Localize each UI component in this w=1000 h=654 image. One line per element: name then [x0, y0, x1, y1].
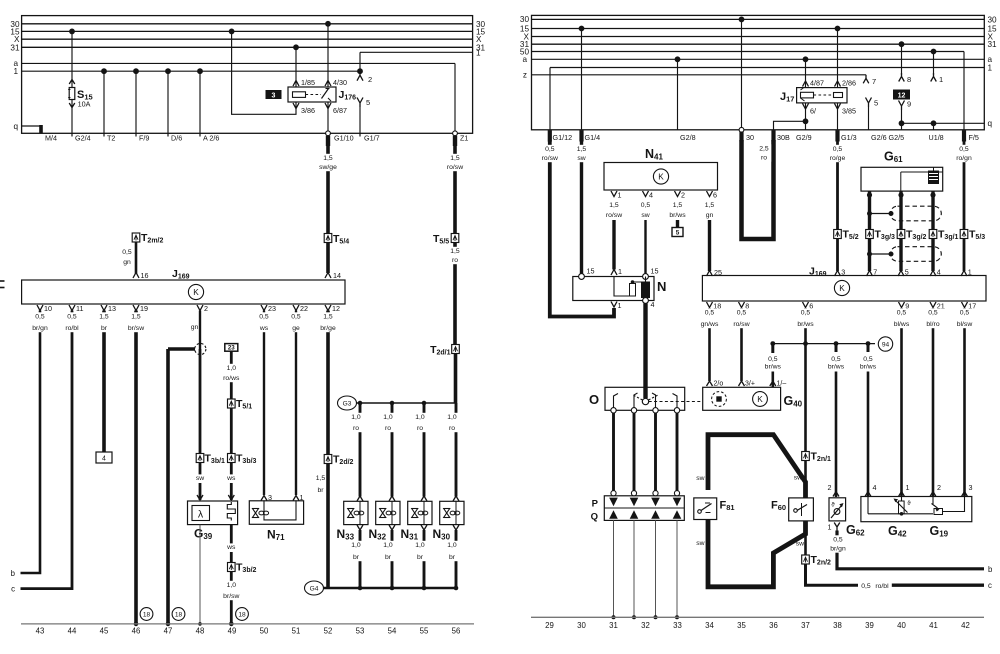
svg-text:1: 1 [968, 268, 972, 277]
svg-text:ro/bl: ro/bl [875, 583, 889, 590]
svg-text:2,5: 2,5 [759, 146, 769, 153]
svg-text:bl/sw: bl/sw [957, 321, 973, 328]
svg-text:gn/ws: gn/ws [701, 321, 719, 328]
svg-text:1: 1 [828, 523, 832, 532]
svg-text:3: 3 [272, 92, 276, 99]
svg-text:G2/5: G2/5 [889, 133, 905, 142]
svg-text:36: 36 [769, 621, 778, 630]
svg-text:0,5: 0,5 [861, 583, 871, 590]
svg-text:5: 5 [905, 268, 909, 277]
svg-text:ro/ge: ro/ge [830, 155, 846, 162]
svg-text:br/ws: br/ws [828, 364, 845, 371]
svg-text:1,0: 1,0 [351, 542, 361, 549]
svg-text:2/o: 2/o [714, 381, 724, 388]
svg-text:3: 3 [268, 493, 272, 502]
svg-text:1: 1 [300, 493, 304, 502]
svg-text:37: 37 [801, 621, 810, 630]
svg-text:2: 2 [681, 191, 685, 200]
svg-text:23: 23 [268, 304, 276, 313]
svg-text:47: 47 [164, 627, 173, 636]
svg-text:0,5: 0,5 [960, 310, 970, 317]
svg-text:0,5: 0,5 [35, 314, 45, 321]
svg-text:4: 4 [102, 456, 106, 463]
svg-text:1/–: 1/– [777, 381, 787, 388]
svg-text:7: 7 [873, 268, 877, 277]
svg-text:0,5: 0,5 [897, 310, 907, 317]
svg-text:34: 34 [705, 621, 714, 630]
svg-text:q: q [988, 119, 993, 128]
svg-text:1: 1 [988, 63, 993, 72]
svg-text:Q: Q [591, 512, 598, 523]
svg-text:K: K [658, 173, 664, 182]
svg-text:14: 14 [333, 271, 341, 280]
svg-text:sw: sw [696, 540, 704, 547]
svg-text:br/ge: br/ge [320, 325, 336, 332]
svg-text:F/5: F/5 [969, 133, 979, 142]
svg-text:49: 49 [228, 627, 237, 636]
svg-text:1,5: 1,5 [316, 475, 326, 482]
svg-text:18: 18 [143, 611, 151, 618]
svg-text:sw: sw [696, 475, 704, 482]
svg-text:1,5: 1,5 [131, 314, 141, 321]
svg-text:1,5: 1,5 [99, 314, 109, 321]
svg-text:3/86: 3/86 [301, 106, 315, 115]
svg-text:T2: T2 [107, 134, 115, 143]
svg-text:c: c [988, 581, 992, 590]
svg-text:A 2/6: A 2/6 [203, 134, 219, 143]
svg-text:94: 94 [882, 342, 890, 349]
svg-text:b: b [11, 569, 16, 578]
svg-text:gn: gn [706, 212, 714, 219]
svg-text:ro/bl: ro/bl [65, 325, 79, 332]
svg-text:1,5: 1,5 [609, 202, 619, 209]
svg-text:39: 39 [865, 621, 874, 630]
svg-text:1,5: 1,5 [450, 155, 460, 162]
svg-text:G3: G3 [343, 401, 352, 408]
svg-text:G2/8: G2/8 [680, 133, 696, 142]
svg-text:0,5: 0,5 [768, 356, 778, 363]
svg-text:46: 46 [132, 627, 141, 636]
svg-text:ws: ws [226, 475, 236, 482]
svg-text:gn: gn [191, 324, 199, 331]
svg-text:0,5: 0,5 [833, 146, 843, 153]
svg-text:15: 15 [587, 267, 595, 276]
svg-text:23: 23 [228, 345, 235, 352]
svg-text:0,5: 0,5 [959, 146, 969, 153]
svg-text:ws: ws [226, 544, 236, 551]
svg-text:0,5: 0,5 [801, 310, 811, 317]
svg-text:N: N [657, 279, 666, 294]
svg-text:1,0: 1,0 [351, 414, 361, 421]
svg-text:2: 2 [937, 483, 941, 492]
svg-text:ro: ro [417, 425, 423, 432]
svg-text:32: 32 [641, 621, 650, 630]
svg-text:35: 35 [737, 621, 746, 630]
svg-text:b: b [988, 565, 993, 574]
svg-text:sw: sw [577, 155, 585, 162]
svg-text:31: 31 [988, 40, 998, 49]
svg-text:sw: sw [796, 541, 804, 548]
svg-text:sw: sw [794, 475, 802, 482]
svg-text:ro: ro [761, 155, 767, 162]
svg-text:4: 4 [937, 268, 941, 277]
svg-text:6/87: 6/87 [333, 106, 347, 115]
svg-text:15: 15 [651, 267, 659, 276]
svg-text:1,0: 1,0 [227, 365, 237, 372]
svg-text:M/4: M/4 [45, 134, 57, 143]
svg-text:br: br [385, 554, 392, 561]
svg-text:6/: 6/ [810, 107, 816, 116]
svg-text:ro: ro [353, 425, 359, 432]
svg-text:br: br [449, 554, 456, 561]
svg-text:4: 4 [651, 300, 655, 309]
svg-text:52: 52 [324, 627, 333, 636]
svg-text:40: 40 [897, 621, 906, 630]
svg-text:4: 4 [649, 191, 653, 200]
svg-text:ro/sw: ro/sw [733, 321, 749, 328]
svg-text:3/85: 3/85 [842, 107, 856, 116]
svg-text:1: 1 [939, 75, 943, 84]
svg-text:5: 5 [676, 230, 680, 237]
svg-text:sw/ge: sw/ge [319, 164, 337, 171]
svg-text:0,5: 0,5 [259, 314, 269, 321]
svg-text:1,0: 1,0 [415, 542, 425, 549]
svg-text:F/9: F/9 [139, 134, 149, 143]
svg-text:2: 2 [204, 304, 208, 313]
svg-text:br/sw: br/sw [223, 593, 239, 600]
svg-text:48: 48 [196, 627, 205, 636]
svg-text:19: 19 [140, 304, 148, 313]
svg-text:D/6: D/6 [171, 134, 182, 143]
svg-text:30: 30 [577, 621, 586, 630]
svg-text:ro: ro [452, 257, 458, 264]
svg-text:33: 33 [673, 621, 682, 630]
svg-text:18: 18 [175, 611, 183, 618]
svg-text:1: 1 [618, 191, 622, 200]
svg-text:ro/sw: ro/sw [542, 155, 558, 162]
svg-text:sw: sw [641, 212, 649, 219]
svg-text:1: 1 [618, 301, 622, 310]
svg-text:G2/9: G2/9 [796, 133, 812, 142]
svg-text:10: 10 [44, 304, 52, 313]
svg-text:G1/4: G1/4 [585, 133, 601, 142]
svg-text:3: 3 [841, 268, 845, 277]
svg-text:3: 3 [969, 483, 973, 492]
svg-text:br: br [101, 325, 108, 332]
svg-text:2: 2 [828, 483, 832, 492]
svg-text:q: q [13, 122, 18, 131]
svg-text:53: 53 [356, 627, 365, 636]
svg-text:1,5: 1,5 [323, 155, 333, 162]
svg-text:0,5: 0,5 [545, 146, 555, 153]
svg-text:1,0: 1,0 [383, 542, 393, 549]
svg-text:4/30: 4/30 [333, 78, 347, 87]
svg-text:38: 38 [833, 621, 842, 630]
svg-text:ro/sw: ro/sw [606, 212, 622, 219]
svg-text:7: 7 [872, 77, 876, 86]
svg-text:43: 43 [36, 627, 45, 636]
svg-text:51: 51 [292, 627, 301, 636]
svg-text:45: 45 [100, 627, 109, 636]
svg-text:25: 25 [714, 268, 722, 277]
svg-text:c: c [11, 585, 15, 594]
svg-text:1,5: 1,5 [577, 146, 587, 153]
svg-text:12: 12 [332, 304, 340, 313]
svg-text:br: br [353, 554, 360, 561]
svg-text:br: br [317, 487, 324, 494]
svg-text:G1/12: G1/12 [553, 133, 573, 142]
svg-text:31: 31 [609, 621, 618, 630]
svg-text:K: K [193, 288, 199, 297]
svg-text:3/+: 3/+ [745, 381, 755, 388]
svg-text:1: 1 [618, 267, 622, 276]
svg-text:0,5: 0,5 [641, 202, 651, 209]
svg-text:1: 1 [13, 67, 18, 76]
svg-text:P: P [592, 499, 599, 510]
svg-text:13: 13 [108, 304, 116, 313]
svg-text:1,5: 1,5 [673, 202, 683, 209]
svg-text:5: 5 [874, 99, 878, 108]
svg-text:z: z [523, 70, 527, 79]
svg-text:4: 4 [873, 483, 877, 492]
svg-text:G2/4: G2/4 [75, 134, 91, 143]
svg-text:30: 30 [746, 133, 754, 142]
svg-text:bl/ro: bl/ro [926, 321, 939, 328]
svg-text:30: 30 [520, 15, 530, 24]
svg-text:1: 1 [906, 483, 910, 492]
svg-text:br: br [417, 554, 424, 561]
svg-text:12: 12 [898, 93, 906, 100]
svg-text:16: 16 [141, 271, 149, 280]
svg-text:0,5: 0,5 [705, 310, 715, 317]
svg-text:0,5: 0,5 [863, 356, 873, 363]
svg-text:br/gn: br/gn [830, 546, 846, 553]
svg-text:0,5: 0,5 [833, 537, 843, 544]
svg-text:55: 55 [420, 627, 429, 636]
svg-text:0,5: 0,5 [928, 310, 938, 317]
svg-text:K: K [839, 284, 845, 293]
svg-text:G1/3: G1/3 [841, 133, 857, 142]
svg-text:6: 6 [713, 191, 717, 200]
svg-text:G1/10: G1/10 [334, 134, 354, 143]
svg-text:30: 30 [988, 15, 998, 24]
svg-text:42: 42 [961, 621, 970, 630]
svg-text:K: K [757, 395, 763, 404]
svg-text:G1/7: G1/7 [364, 134, 380, 143]
svg-text:gn: gn [123, 259, 131, 266]
svg-text:30B: 30B [777, 133, 790, 142]
svg-text:50: 50 [260, 627, 269, 636]
svg-text:5: 5 [366, 98, 370, 107]
svg-text:ro: ro [385, 425, 391, 432]
svg-text:1,0: 1,0 [415, 414, 425, 421]
svg-text:1,0: 1,0 [227, 582, 237, 589]
svg-text:1,0: 1,0 [383, 414, 393, 421]
svg-text:br/gn: br/gn [32, 325, 48, 332]
svg-text:Z1: Z1 [460, 134, 468, 143]
svg-text:ro/ws: ro/ws [223, 375, 240, 382]
svg-text:8: 8 [907, 75, 911, 84]
svg-text:G4: G4 [310, 586, 319, 593]
svg-text:1/85: 1/85 [301, 78, 315, 87]
svg-text:2: 2 [368, 75, 372, 84]
svg-text:br/ws: br/ws [669, 212, 686, 219]
svg-text:56: 56 [452, 627, 461, 636]
svg-text:ge: ge [292, 325, 300, 332]
svg-text:31: 31 [10, 43, 20, 52]
svg-text:br/ws: br/ws [765, 364, 782, 371]
svg-text:9: 9 [907, 100, 911, 109]
svg-text:ro/gn: ro/gn [956, 155, 972, 162]
svg-text:0,5: 0,5 [122, 249, 132, 256]
svg-text:O: O [589, 392, 599, 407]
svg-text:41: 41 [929, 621, 938, 630]
svg-text:br/ws: br/ws [860, 364, 877, 371]
svg-text:ro/sw: ro/sw [447, 164, 463, 171]
svg-text:0,5: 0,5 [737, 310, 747, 317]
svg-text:bl/ws: bl/ws [894, 321, 910, 328]
svg-text:29: 29 [545, 621, 554, 630]
svg-text:br/ws: br/ws [797, 321, 814, 328]
svg-text:sw: sw [196, 475, 204, 482]
svg-text:ws: ws [259, 325, 269, 332]
svg-text:1,5: 1,5 [450, 248, 460, 255]
svg-text:2/86: 2/86 [842, 79, 856, 88]
svg-text:22: 22 [300, 304, 308, 313]
svg-text:54: 54 [388, 627, 397, 636]
svg-text:1,5: 1,5 [323, 314, 333, 321]
svg-text:1,0: 1,0 [447, 542, 457, 549]
svg-text:18: 18 [238, 611, 246, 618]
svg-text:1,5: 1,5 [705, 202, 715, 209]
svg-text:1: 1 [476, 48, 481, 57]
svg-text:10A: 10A [78, 100, 91, 109]
svg-text:a: a [522, 55, 527, 64]
svg-text:0,5: 0,5 [831, 356, 841, 363]
svg-text:0,5: 0,5 [291, 314, 301, 321]
svg-text:ro: ro [449, 425, 455, 432]
svg-text:1,0: 1,0 [447, 414, 457, 421]
svg-text:G2/6: G2/6 [871, 133, 887, 142]
svg-text:0,5: 0,5 [67, 314, 77, 321]
svg-text:br/sw: br/sw [128, 325, 144, 332]
svg-text:λ: λ [198, 509, 204, 521]
svg-text:U1/8: U1/8 [929, 133, 944, 142]
svg-text:11: 11 [76, 304, 83, 313]
svg-text:44: 44 [68, 627, 77, 636]
svg-text:4/87: 4/87 [810, 79, 824, 88]
